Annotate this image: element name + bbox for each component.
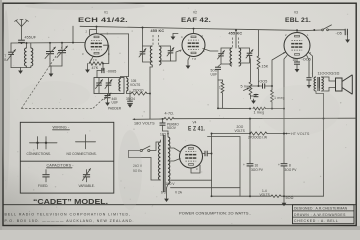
- svg-text:ECH 41/42.: ECH 41/42.: [78, 17, 128, 24]
- wire mains lower: [129, 151, 161, 181]
- svg-text:5OΩ: 5OΩ: [286, 196, 294, 200]
- capacitor -0005: [97, 64, 116, 78]
- legend NO CONNECTIONS text: [67, 152, 97, 156]
- svg-text:E Z 41.: E Z 41.: [188, 126, 205, 133]
- capacitor variable tuning C2 oscillator: [57, 43, 68, 66]
- wire resistor to B+ drop: [147, 93, 150, 95]
- tube V3 EBL 21 name: [285, 17, 311, 24]
- switch mains: [129, 142, 161, 152]
- legend CONNECTIONS text: [27, 152, 52, 156]
- ground bypass V3: [307, 83, 312, 88]
- svg-text:V4: V4: [193, 121, 197, 125]
- svg-text:-0005: -0005: [107, 70, 117, 74]
- coil T1 secondary: [159, 46, 161, 65]
- coil antenna secondary: [31, 43, 33, 68]
- wire V1 cathode down: [89, 57, 93, 64]
- output transformer core: [318, 77, 320, 91]
- title block checked: [294, 219, 339, 223]
- wire AVC bus: [218, 107, 251, 109]
- IF T1 slug dashes: [153, 35, 159, 46]
- svg-text:-O5: -O5: [336, 31, 342, 35]
- wire V1 mixer plate to 47K node: [103, 45, 109, 63]
- ground tuning gang: [49, 66, 54, 77]
- wire B+ top rail: [80, 26, 296, 30]
- output transformer label 11000 ohm: [318, 72, 340, 76]
- tube V2: [182, 34, 205, 57]
- wire osc to resistor: [127, 91, 132, 94]
- wire HT line 200V: [212, 133, 251, 135]
- switch tone: [297, 25, 345, 31]
- legend no-connections symbol: [76, 135, 96, 149]
- svg-text:DESIGNED : A.R.CHESTERMAN: DESIGNED : A.R.CHESTERMAN: [294, 207, 348, 211]
- coil oscillator feedback: [127, 78, 129, 91]
- capacitor PERMO 500V: [160, 119, 180, 131]
- coil output primary: [314, 77, 316, 91]
- resistor 27000 ohm 1W: [248, 132, 284, 140]
- ground V1 cathode: [85, 64, 90, 73]
- capacitor padder: [104, 93, 111, 101]
- capacitor antenna series 455UF: [18, 36, 37, 43]
- wire 180V rail left: [133, 118, 160, 125]
- antenna: [15, 20, 29, 40]
- wire T1 secondary to V2 grid: [171, 50, 182, 61]
- label V3: [294, 11, 298, 15]
- wire gang dashed horizontal: [21, 107, 93, 109]
- svg-text:VOLTS: VOLTS: [130, 83, 140, 87]
- svg-text:455UF: 455UF: [25, 36, 37, 40]
- svg-text:18O V: 18O V: [166, 182, 176, 186]
- legend WIRING title: [53, 126, 70, 130]
- wire osc coil top: [121, 77, 127, 79]
- legend connections symbol: [30, 137, 58, 149]
- IF T2 slug dashes: [233, 38, 239, 48]
- wire V1 grid drop: [73, 26, 85, 42]
- wire V1 second top stem: [90, 30, 97, 35]
- capacitor trimmer T.B: [4, 43, 15, 68]
- wire secondary to speaker: [321, 77, 335, 91]
- wire V4 bottom: [191, 165, 200, 173]
- svg-text:V3: V3: [294, 11, 298, 15]
- capacitor volume bypass: [251, 94, 259, 97]
- wire coil bottom to ground: [11, 67, 31, 69]
- label 180 V top: [160, 132, 170, 136]
- svg-text:3OO PV: 3OO PV: [285, 168, 298, 172]
- svg-text:6-3: 6-3: [161, 191, 166, 195]
- tube V3: [284, 33, 310, 59]
- pin numbers V3: [283, 33, 312, 62]
- label V2: [193, 11, 197, 15]
- coil HT secondary: [168, 131, 170, 184]
- capacitor variable tuning C1: [45, 43, 56, 66]
- svg-text:CHECKED : A. BELL: CHECKED : A. BELL: [294, 219, 339, 223]
- resistor 50 ohm: [271, 195, 294, 200]
- ground near V2 grid cap: [171, 34, 178, 40]
- ground padder: [105, 101, 110, 106]
- coil T2 secondary: [239, 48, 241, 66]
- schematic/footer separator line: [3, 204, 356, 206]
- svg-text:P.O. BOX 15O. ————— AUCKLAND,: P.O. BOX 15O. ————— AUCKLAND, NEW ZEALAN…: [5, 219, 135, 223]
- svg-text:CAPACITORS -: CAPACITORS -: [47, 164, 75, 168]
- tube V4: [180, 145, 203, 168]
- wire V4 output node: [211, 134, 213, 197]
- resistor 1 meg grid: [218, 80, 224, 108]
- footer company line: [5, 213, 132, 217]
- wire heater 6-3V line: [171, 187, 241, 189]
- capacitor electrolytic 8 300PV: [278, 134, 297, 197]
- legend box: [20, 122, 114, 193]
- resistor 47K: [89, 62, 103, 70]
- capacitor -005 cathode V3: [294, 58, 311, 67]
- power transformer core: [163, 135, 165, 192]
- svg-text:5OOV: 5OOV: [167, 126, 177, 130]
- ground tone cap: [345, 37, 350, 43]
- svg-text:15OOO: 15OOO: [133, 89, 145, 93]
- capacitor T1 trimmer left: [139, 46, 152, 62]
- legend fixed capacitor symbol: [42, 170, 49, 182]
- resistor 15K: [257, 30, 269, 86]
- ground V2: [186, 63, 191, 69]
- svg-text:PADDER: PADDER: [108, 107, 122, 111]
- svg-text:V1: V1: [104, 11, 108, 15]
- coil T2 primary: [230, 48, 232, 66]
- label HT VOLTS: [285, 132, 310, 136]
- wire V3 top pin: [296, 30, 298, 33]
- capacitor T1 trimmer right: [159, 46, 174, 61]
- IF transformer T2 label 455 KC: [229, 32, 243, 36]
- svg-text:“CADET” MODEL.: “CADET” MODEL.: [33, 199, 108, 206]
- svg-text:T 8: T 8: [192, 57, 196, 61]
- svg-text:4-7Ω.: 4-7Ω.: [165, 112, 175, 116]
- wire V2 top to rail: [193, 29, 195, 34]
- title block drawn: [294, 213, 346, 217]
- tube V1 ECH 41/42 name: [78, 17, 128, 24]
- svg-text:VARIABLE.: VARIABLE.: [79, 184, 95, 188]
- wire V1 osc anode to feedback coil: [99, 34, 129, 77]
- label 1-4 VOLTS: [260, 189, 270, 197]
- wire V3 grid: [272, 52, 286, 86]
- potentiometer 5 meg volume: [241, 55, 252, 99]
- capacitor -05 tone: [336, 29, 348, 37]
- wire V3 screen drop: [284, 56, 287, 134]
- wire back bias bus: [212, 195, 272, 197]
- ground antenna coil: [18, 68, 23, 74]
- wire V3 plate to output transformer: [309, 53, 313, 78]
- pin numbers V2: [180, 34, 206, 61]
- svg-text:16: 16: [255, 164, 259, 168]
- svg-text:V 2A: V 2A: [175, 191, 183, 195]
- wire V4 anode feed: [168, 148, 181, 161]
- wire to ground 50 ohm: [281, 195, 324, 197]
- wire T2 primary top to rail: [235, 30, 237, 48]
- label 6-3 V 2A: [161, 191, 183, 195]
- coil antenna primary: [25, 43, 27, 68]
- capacitor cathode bypass V3: [306, 55, 311, 83]
- capacitor -005 coupling: [251, 80, 273, 89]
- ground cap 35-04: [128, 104, 133, 108]
- wire V1 top to rail: [96, 27, 98, 34]
- title CADET MODEL: [33, 199, 108, 206]
- svg-text:18O VOLTS: 18O VOLTS: [134, 121, 155, 125]
- capacitor T2 trimmer left: [218, 48, 233, 64]
- capacitor electrolytic 16 300PV: [243, 119, 264, 196]
- svg-text:-OO5: -OO5: [258, 80, 267, 84]
- wire T1 primary bottom to V1 plate: [150, 65, 152, 67]
- label PADDER: [108, 107, 122, 111]
- tube V4 EZ 41 name: [188, 126, 205, 133]
- svg-text:455 KC: 455 KC: [229, 32, 243, 36]
- wire antenna input bus: [11, 42, 73, 44]
- svg-text:VOLTS: VOLTS: [235, 129, 245, 133]
- wire output primary bottom: [316, 91, 324, 94]
- svg-text:UUF: UUF: [112, 101, 119, 105]
- tube V2 EAF 42 name: [181, 17, 211, 24]
- legend VARIABLE text: [79, 184, 95, 188]
- label padder value 440 UUF: [112, 97, 119, 105]
- pin numbers V4: [184, 145, 198, 171]
- wire T1 primary top to rail: [142, 28, 144, 47]
- wire tuning caps bottom: [50, 65, 62, 67]
- title block box: [293, 205, 355, 224]
- wire rect box right: [208, 137, 241, 197]
- resistor 1 meg grid V3: [271, 86, 285, 109]
- capacitor 35-04: [126, 91, 135, 104]
- speaker: [336, 75, 353, 94]
- svg-text:VOLTS: VOLTS: [260, 193, 270, 197]
- svg-text:35-O4: 35-O4: [126, 97, 135, 101]
- legend CAPACITORS title: [47, 164, 75, 168]
- svg-text:455 KC: 455 KC: [151, 29, 165, 33]
- svg-text:3OO PV: 3OO PV: [251, 168, 264, 172]
- tube V1: [85, 34, 108, 57]
- label 180 V bottom: [166, 182, 176, 186]
- svg-text:WIRING -: WIRING -: [53, 126, 70, 130]
- svg-text:+: +: [278, 163, 280, 167]
- capacitor osc trimmer 1: [96, 78, 103, 93]
- wire V2 plate to T2: [203, 49, 218, 52]
- label 200 VOLTS: [235, 125, 245, 133]
- IF transformer T1 label 455 KC: [151, 29, 165, 33]
- label V1: [104, 11, 108, 15]
- svg-text:EBL 21.: EBL 21.: [285, 17, 311, 24]
- svg-text:16: 16: [293, 58, 297, 62]
- svg-text:1: 1: [219, 86, 221, 90]
- capacitor osc trimmer 2: [105, 78, 112, 93]
- pin numbers V1: [82, 30, 110, 63]
- svg-text:11OOOΩ/3Ω: 11OOOΩ/3Ω: [318, 72, 340, 76]
- resistor 1 meg AVC: [253, 107, 284, 114]
- svg-text:47K: 47K: [92, 66, 99, 70]
- svg-text:CONNECTIONS.: CONNECTIONS.: [27, 152, 52, 156]
- label power consumption: [179, 211, 251, 215]
- svg-text:+: +: [243, 163, 245, 167]
- svg-text:V2: V2: [193, 11, 197, 15]
- svg-text:15K: 15K: [262, 65, 269, 69]
- ground volume pot: [251, 99, 256, 104]
- resistor 15000: [131, 89, 147, 96]
- label 240V 50cs: [133, 164, 143, 173]
- svg-text:-OO5: -OO5: [302, 58, 311, 62]
- svg-text:5 meg: 5 meg: [241, 85, 252, 89]
- coil oscillator primary: [119, 79, 121, 92]
- ground V3 cathode: [295, 67, 300, 72]
- wire gang dashed diagonal: [21, 46, 63, 109]
- svg-text:UUF: UUF: [211, 72, 218, 76]
- ground main B minus: [282, 196, 287, 206]
- title block designed: [294, 207, 348, 211]
- svg-text:EAF 42.: EAF 42.: [181, 17, 211, 24]
- wire output B+ drop: [323, 94, 325, 197]
- svg-text:27OOOΩ I.W: 27OOOΩ I.W: [248, 135, 267, 139]
- svg-text:POWER CONSUMPTION: 2O WATTS..: POWER CONSUMPTION: 2O WATTS..: [179, 211, 251, 215]
- coil output secondary: [321, 77, 323, 91]
- svg-text:NO CONNECTIONS.: NO CONNECTIONS.: [67, 152, 97, 156]
- wire 180V tap line: [171, 179, 212, 181]
- wire secondary top tap: [163, 130, 169, 132]
- oscillator section box: [94, 78, 124, 94]
- capacitor 500 UUF: [211, 64, 222, 108]
- wire V2 cathode to ground: [188, 56, 190, 63]
- legend variable capacitor symbol: [83, 169, 91, 182]
- wire gang dashed diagonal right: [93, 94, 109, 109]
- coil mains primary: [158, 140, 160, 180]
- resistor 4-7 ohm filter: [160, 112, 356, 120]
- label V4: [193, 121, 197, 125]
- svg-text:BELL RADIO TELEVISION CORPORAT: BELL RADIO TELEVISION CORPORATION LIMITE…: [5, 213, 132, 217]
- coil T1 primary: [150, 46, 152, 65]
- ground transformer CT: [164, 184, 169, 202]
- legend FIXED text: [38, 184, 48, 188]
- wire B+ drop T1: [149, 67, 151, 119]
- svg-text:FIXED.: FIXED.: [38, 184, 48, 188]
- capacitor V4 output: [202, 151, 211, 157]
- svg-text:8: 8: [289, 164, 291, 168]
- label 105 VOLTS: [130, 79, 140, 87]
- capacitor T2 trimmer right: [239, 48, 253, 63]
- svg-text:DRAWN : A.W.EDWARDES: DRAWN : A.W.EDWARDES: [294, 213, 346, 217]
- footer address line: [5, 219, 135, 223]
